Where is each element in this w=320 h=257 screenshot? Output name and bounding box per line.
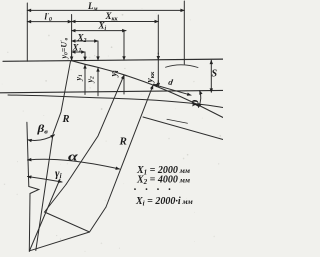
svg-text:l'0: l'0 bbox=[45, 12, 52, 24]
svg-text:R: R bbox=[62, 114, 70, 125]
svg-text:X1: X1 bbox=[72, 43, 82, 55]
svg-text:Xкк: Xкк bbox=[105, 11, 119, 23]
svg-text:yкк: yкк bbox=[146, 71, 156, 84]
svg-text:α: α bbox=[68, 150, 78, 164]
svg-text:. . . .: . . . . bbox=[134, 181, 174, 193]
svg-text:Lм: Lм bbox=[87, 1, 98, 13]
svg-text:βв: βв bbox=[36, 122, 48, 135]
svg-text:y2: y2 bbox=[86, 76, 96, 84]
svg-text:γi: γi bbox=[55, 168, 62, 181]
svg-text:S: S bbox=[212, 69, 218, 80]
svg-text:d: d bbox=[168, 77, 175, 88]
svg-text:y0=U'в: y0=U'в bbox=[60, 37, 70, 59]
svg-text:Xi: Xi bbox=[98, 21, 107, 33]
svg-text:R: R bbox=[119, 136, 127, 148]
svg-text:Xi = 2000·i мм: Xi = 2000·i мм bbox=[135, 196, 193, 208]
svg-text:y1: y1 bbox=[74, 74, 84, 82]
